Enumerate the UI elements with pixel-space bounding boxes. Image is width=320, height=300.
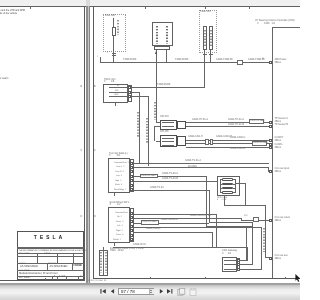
inline connector pair 2 label [160, 131, 169, 134]
viewer background strip above pages [0, 0, 300, 6]
box 2 pin rows [114, 162, 129, 164]
box A drain [114, 103, 117, 106]
spine: gap [88, 6, 89, 284]
bottom zone ticks [150, 277, 151, 279]
fuse 1 exit connector marks [112, 52, 116, 55]
box 3 wire row E (y=231.5): down at x=211.5 into strip wire [134, 231, 213, 234]
small connector on pin220 wire [253, 217, 259, 222]
box A wire 3: right then down [132, 95, 150, 98]
big box pin at y=143.5 [269, 143, 272, 146]
rotated label on pair1 feed [154, 102, 156, 120]
box 2 wire row A (y=163) to big box [134, 162, 269, 165]
box A pins [128, 86, 131, 89]
right page footer text [88, 280, 106, 282]
box 3 pin rows [115, 212, 130, 214]
inline connector pair 1 body [160, 120, 177, 130]
feed wire down from fuse2 to box A level [203, 63, 206, 88]
TESLA logo [17, 236, 82, 242]
bottom box pins [237, 259, 240, 262]
box A connector strip [128, 85, 132, 102]
sheet name row [17, 269, 84, 272]
big box outline [272, 27, 300, 28]
next page button [159, 289, 164, 294]
fuse2 pin wires to bus [203, 50, 206, 63]
box A wire 2: right then down [132, 91, 141, 94]
resistor left bracket [219, 179, 222, 193]
bottom-left connector strip [99, 250, 108, 276]
fuse2 exit marks [203, 53, 207, 56]
pair2 internal pins [162, 137, 174, 140]
box 3 wire row A (y=213.5): down at x=216, to bottom loop [134, 213, 217, 216]
loop right verticals to bottom box [251, 222, 254, 265]
left page note text line 3 [0, 78, 9, 81]
resistor right bracket [234, 179, 237, 193]
page top border line [0, 6, 300, 7]
box 3 bottom drain [113, 243, 116, 246]
pair1 left stubs [156, 121, 160, 124]
last page button [166, 289, 173, 294]
box 3 wire row D (y=227): down at x=261.3 to pin3 wire [134, 226, 262, 229]
dashed fuse box 1 [103, 14, 126, 53]
field spinner [149, 289, 154, 295]
pair2 wires to big box [186, 139, 270, 142]
zone tick top left page [30, 7, 31, 9]
box 2 wire row C (y=176) [134, 175, 208, 178]
vertical feed to pair2 [153, 126, 156, 141]
zone tick top right page 2 [249, 7, 250, 9]
pair1 internal pins [162, 121, 174, 124]
box 2 connector strip [130, 159, 134, 192]
big box pin at y=258 [269, 257, 272, 260]
big box pin at y=220 [269, 219, 272, 222]
inline connector pair 2 body [160, 135, 177, 147]
resistor output: bottom exit, right at y=205, up to pin258 [223, 196, 226, 206]
big box pin at y=146.5 [269, 146, 272, 149]
box 3 connector strip [130, 208, 134, 242]
bottom box pin wires right [240, 259, 248, 262]
feed wire label [157, 84, 170, 87]
wire from fuse1 down to bus [112, 57, 115, 63]
box 2 bottom drain [113, 193, 116, 196]
left page note text line 2 [0, 13, 17, 16]
zone letters left margin of right page [94, 86, 96, 89]
horizontal power bus y=62.5 [100, 61, 269, 64]
left end bracket of bus [99, 57, 102, 63]
right page left frame line [93, 6, 94, 279]
pair2 inline connector small [205, 139, 209, 145]
box A label [104, 79, 116, 82]
relay pin labels rotated [156, 26, 158, 44]
snapshot icon (disabled) [177, 288, 186, 296]
bottom box internal wires [224, 259, 237, 262]
big box pin at y=140 [269, 139, 272, 142]
horizontal feed wire y=87 to box A [131, 86, 205, 89]
header row [17, 252, 84, 255]
pair2 left stubs [156, 140, 160, 143]
prev page button [110, 289, 115, 294]
bus inline connector [237, 60, 243, 65]
big box pin at y=122 [269, 121, 272, 124]
connector box A [103, 84, 128, 103]
wire into pin 258 [265, 256, 268, 259]
dashed fuse box 2 [199, 10, 217, 53]
first page button [100, 289, 107, 294]
spine: faint top column [86, 0, 90, 6]
box 3: scroll wheel switch [108, 207, 130, 243]
scale row [17, 262, 84, 265]
dense notice text row [19, 250, 83, 252]
big box pin at y=126 [269, 125, 272, 128]
resistor ladder box [217, 176, 240, 196]
box 2 wire row D (y=181) [134, 180, 217, 183]
box 3 wire row C (y=222.5) [134, 222, 209, 225]
box 2 wire row B (y=166.5) [134, 166, 269, 169]
clipboard icon (disabled) [189, 288, 198, 296]
fuse 1 wire [112, 18, 115, 57]
resistor box caption [217, 197, 227, 199]
big box pin at y=171 [269, 170, 272, 173]
big box label [255, 20, 295, 23]
bus wire label 2 [175, 59, 188, 62]
box2 rowC loop: down at x=206.5, right at y=225.6 [205, 176, 208, 226]
spine: left paper edge [86, 6, 88, 284]
up arrow at relay pin [155, 51, 157, 54]
mouse cursor [294, 274, 301, 283]
fuse 2 rotated labels [204, 30, 206, 46]
left page right frame line [84, 6, 85, 281]
zone tick top right page mid [205, 7, 206, 9]
resistor output right exit then down [235, 182, 246, 185]
box 2: turn signal stalk LHD [108, 158, 130, 193]
wire box3 bottom to strip [113, 246, 217, 249]
relay box connector strip [154, 46, 170, 50]
left page note text line 1 [0, 10, 25, 13]
fuse 1 rotated label [117, 20, 119, 35]
page number field [118, 288, 154, 296]
bottom row [17, 275, 84, 278]
zone letters right margin of left page [81, 86, 83, 89]
box A internal wires [109, 86, 128, 89]
resistor elements [222, 178, 233, 181]
fuse 1 element [112, 27, 116, 36]
page bottom frame lines [93, 278, 300, 279]
box2 rowE loop: down at x=209, right at y=222 [208, 190, 211, 223]
bottom connector box [222, 257, 237, 272]
big box pin at y=62 [269, 61, 272, 64]
bus wire label 1 [123, 59, 136, 62]
bus wire label 3 [216, 59, 232, 62]
spine: right paper edge [89, 6, 91, 284]
box 3 wire row B (y=218) into pin 220 [134, 217, 242, 220]
box 2 wire row E (y=190) [134, 189, 210, 192]
pair1 wires to big box [186, 121, 270, 124]
relay pin stubs [155, 50, 158, 63]
bus wire label 4 [248, 59, 264, 62]
inline connector pair 1 label [160, 116, 169, 119]
relay box C [152, 22, 174, 46]
twisted pair boxed label 2 [252, 141, 267, 145]
title block double line [17, 246, 84, 249]
big box jog for pin 171 [267, 167, 270, 172]
fuse 2 element A [203, 26, 207, 50]
vertical feed to pair1 [155, 63, 158, 123]
twisted pair boxed label 1 [249, 119, 264, 123]
fuse 2 element B [209, 26, 213, 50]
zone tick top right page [145, 7, 146, 9]
